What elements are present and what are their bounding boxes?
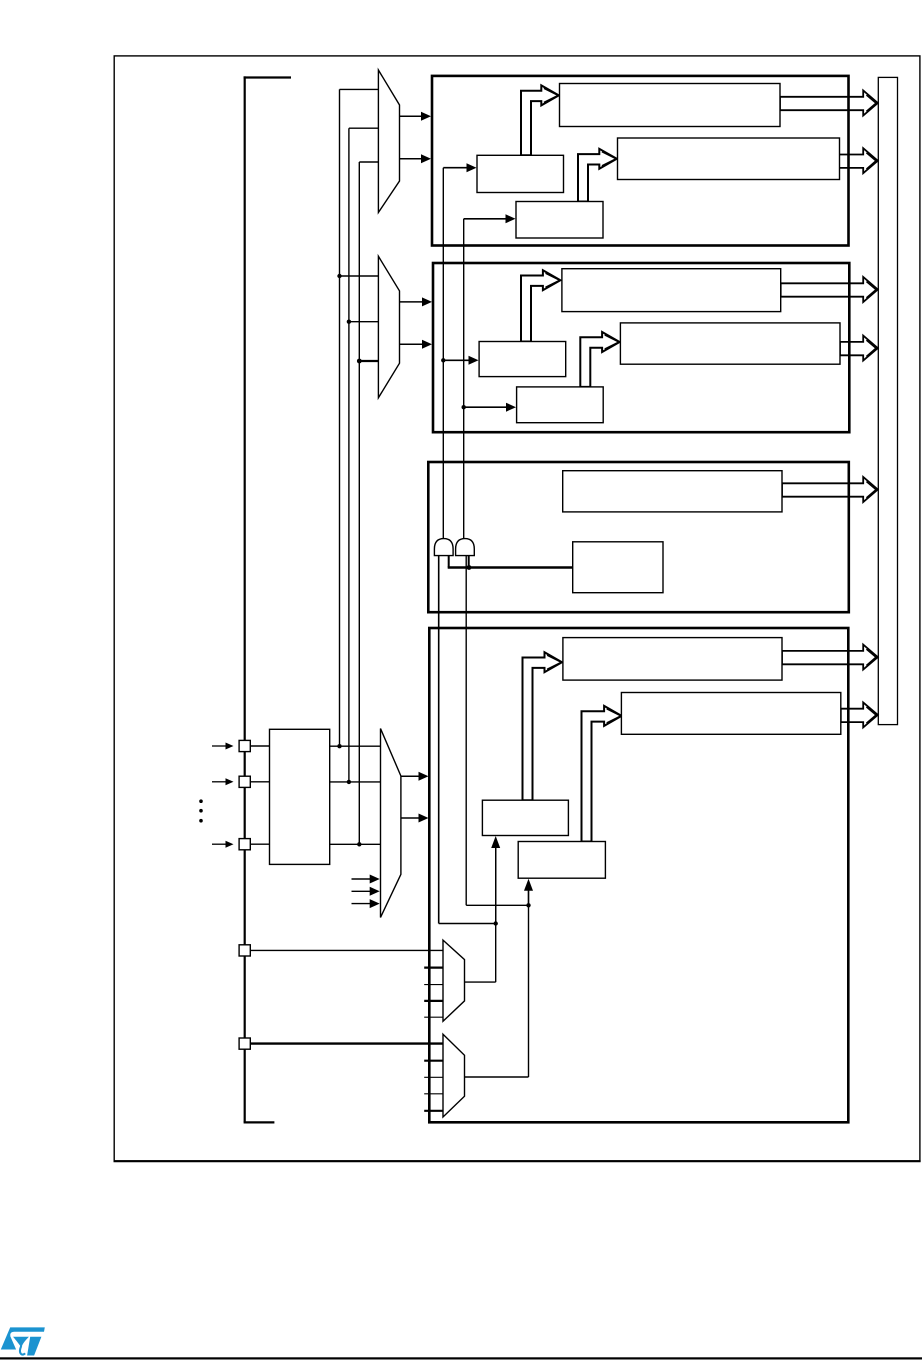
arrow: L1 into box 2B	[443, 356, 478, 365]
wire: pad 2 to input box	[250, 781, 270, 783]
block B3 (trigger controller)	[428, 462, 849, 612]
box 4D (prescaler)	[518, 842, 605, 879]
wire: filter F2 output	[465, 1076, 529, 1078]
box 1A (auto-reload register)	[560, 84, 781, 127]
wire: feed line B vertical	[348, 128, 350, 782]
bus arrow: box 3A to bar	[782, 477, 878, 502]
wire: filter F1 output	[465, 981, 496, 983]
wire: mux M3 input 2	[330, 781, 381, 783]
wire: mux M3 input 3	[330, 843, 381, 845]
arrow: mux M3 aux select 3	[352, 899, 380, 908]
bus arrow: box 4C up into box 4A	[523, 652, 563, 800]
arrow: up into box 4C	[491, 836, 500, 924]
wire: pad 1 to input box	[250, 745, 270, 747]
wire: F2 tick 2	[424, 1076, 443, 1078]
wire: mux M3 input 1	[330, 745, 381, 747]
wire: mux M1 input 3	[359, 161, 378, 163]
box 4B (capture/compare register)	[621, 693, 840, 735]
bus arrow: box 4A to bar	[782, 645, 878, 670]
wire: net L3 vertical	[438, 556, 440, 924]
wire: top stub	[244, 76, 291, 78]
mux M3 (input select)	[381, 729, 401, 918]
box 1B (control)	[477, 155, 564, 192]
node: input pad square 5	[239, 1038, 250, 1049]
wire: mux M1 input 2	[349, 127, 379, 129]
ST logo	[1, 1327, 45, 1355]
junction: L3 / F1 riser	[494, 921, 498, 925]
arrow: external input 1	[212, 743, 234, 750]
junction: feed B / M2 in2	[347, 320, 351, 324]
node: outer border bottom edge	[114, 1160, 921, 1162]
wire: F1 tick 3	[424, 1000, 443, 1002]
box 2A (auto-reload register)	[562, 269, 781, 312]
wire: gate G2 output stub	[468, 556, 470, 568]
wire: feed line A vertical	[339, 89, 341, 746]
wire: mux M2 input 1	[340, 275, 379, 277]
box 1C (counter)	[618, 138, 840, 180]
wire: feed line C vertical	[358, 162, 360, 844]
arrow: external input 3	[212, 841, 234, 848]
arrow: mux M1 output 1	[400, 112, 432, 121]
node: page footer rule	[0, 1357, 922, 1359]
box: input stage block	[270, 729, 330, 864]
wire: bottom stub	[244, 1121, 275, 1123]
junction: L1 / box 2B arrow	[441, 358, 445, 362]
arrow: external input 2	[212, 778, 234, 785]
bus arrow: box 1C to bar	[839, 148, 878, 173]
wire: F1 tick 4	[424, 1016, 443, 1018]
gate G2 (edge detector)	[456, 539, 475, 556]
bus arrow: box 1B up into box 1A	[521, 85, 559, 155]
junction: feed A / M2 in1	[337, 274, 341, 278]
wire: gate G1 output stub	[448, 556, 450, 568]
bus arrow: box 2C to bar	[840, 336, 878, 361]
node: event flag bus bar	[878, 77, 897, 724]
box 2D (prescaler)	[517, 387, 604, 423]
box 1D (prescaler)	[516, 202, 603, 239]
arrow: up into box 4D	[524, 879, 533, 906]
wire: F2 tick 1	[424, 1060, 443, 1062]
wire: net L4 horizontal to junction	[466, 904, 528, 906]
node: input pad square 4	[239, 945, 250, 956]
bus arrow: box 1A to bar	[780, 91, 878, 116]
block B1 (time base unit 1)	[432, 76, 849, 246]
wire: pad 3 to input box	[250, 843, 270, 845]
arrow: mux M3 aux select 1	[352, 875, 380, 884]
wire: F1 tick 2	[424, 984, 443, 986]
arrow: mux M2 output 2	[400, 340, 433, 349]
wire: filter F1 up to box 4C	[495, 845, 497, 982]
junction: gate outputs	[467, 565, 472, 570]
arrow: mux M1 output 2	[400, 154, 432, 163]
arrow: L2 into box 2D	[464, 403, 516, 412]
junction: feed C / M3 in3	[357, 842, 361, 846]
box 4A (register)	[563, 638, 782, 681]
box 2C (counter)	[620, 323, 840, 364]
box 3B (slave mode control)	[573, 542, 663, 593]
arrow: mux M2 output 1	[400, 297, 433, 306]
junction: feed A / M3 in1	[337, 744, 341, 748]
bus arrow: box 4B to bar	[841, 702, 878, 727]
wire: F1 tick 1	[424, 966, 443, 968]
wire: F2 tick 3	[424, 1093, 443, 1095]
node: input pad square 3	[239, 839, 250, 850]
junction: L4 / F2 riser	[526, 903, 530, 907]
gate G1 (edge detector)	[434, 539, 453, 556]
wire: main input rail vertical	[244, 76, 246, 1122]
bus arrow: box 1D up into box 1C	[578, 149, 617, 202]
wire: pad 4 to filter F1	[250, 949, 443, 951]
node: input pad square 2	[239, 776, 250, 787]
mux M1 (clock select)	[378, 70, 399, 213]
wire: net L1 vertical (TI path 1)	[442, 168, 444, 540]
wire: mux M2 input 3	[359, 360, 378, 362]
box 2B (control)	[479, 342, 566, 377]
block B4 (capture/compare unit)	[429, 628, 848, 1122]
node: more-inputs ellipsis dots	[199, 799, 203, 822]
bus arrow: box 4D up into box 4B	[582, 706, 622, 842]
wire: mux M1 input 1	[340, 88, 379, 90]
wire: mux M2 input 2	[349, 321, 379, 323]
wire: gates to box 3B	[448, 566, 573, 568]
mux M2 (trigger select)	[378, 256, 399, 398]
junction: feed B / M3 in2	[347, 780, 351, 784]
wire: net L3 horizontal to junction	[439, 923, 496, 925]
wire: net L4 vertical	[465, 556, 467, 906]
wire: F2 tick 4	[424, 1110, 443, 1112]
bus arrow: box 2B up into box 2A	[521, 270, 560, 341]
node: figure outer border	[114, 56, 920, 1161]
filter F1 (channel 1 input stage)	[443, 940, 465, 1021]
node: input pad square 1	[239, 740, 250, 751]
junction: feed C / M2 in3	[357, 359, 362, 364]
junction: L2 / box 2D arrow	[462, 405, 466, 409]
arrow: L2 into box 1D	[464, 214, 516, 223]
wire: pad 5 to filter F2	[250, 1042, 443, 1044]
wire: filter F2 up to box 4D	[528, 887, 530, 1077]
wire: net L2 vertical (TI path 2)	[463, 219, 465, 540]
arrow: mux M3 aux select 2	[352, 887, 380, 896]
arrow: mux M3 output 2	[401, 814, 429, 823]
box 3A (register)	[563, 471, 782, 512]
arrow: mux M3 output 1	[401, 772, 429, 781]
filter F2 (channel 2 input stage)	[443, 1034, 465, 1117]
block B2 (time base unit 2)	[433, 263, 849, 432]
bus arrow: box 2D up into box 2C	[580, 332, 619, 387]
bus arrow: box 2A to bar	[781, 277, 878, 302]
arrow: L1 into box 1B	[443, 163, 476, 172]
box 4C (prescaler)	[482, 800, 568, 835]
